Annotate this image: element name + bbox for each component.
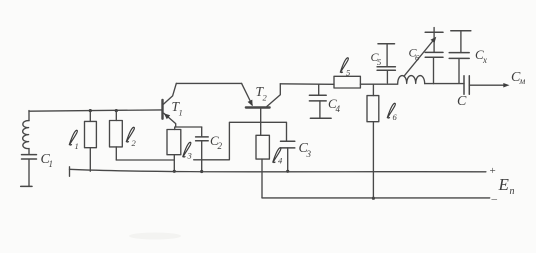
svg-text:4: 4 <box>278 156 283 166</box>
label R2 <box>126 127 136 148</box>
svg-text:E: E <box>498 175 510 194</box>
svg-text:2: 2 <box>263 93 268 103</box>
label C1 <box>41 152 54 169</box>
wire output with arrow <box>469 84 505 86</box>
resistor R3 <box>174 127 176 130</box>
wire T2 collector to R5 <box>280 83 334 86</box>
svg-text:n: n <box>510 186 515 197</box>
label C6 <box>409 46 421 63</box>
capacitor Cx <box>449 31 471 83</box>
wire T1 emitter junction <box>176 126 202 128</box>
label Cx <box>475 47 487 65</box>
wire -En rail <box>262 197 490 199</box>
label C2 <box>210 133 223 151</box>
node R3 bottom rail <box>173 170 176 173</box>
label Cm (output) <box>511 70 526 86</box>
svg-text:3: 3 <box>187 151 192 161</box>
label R6 <box>387 103 397 122</box>
wire T1 collector to T2 emitter (top link) <box>176 82 241 84</box>
resistor R2 <box>115 111 117 121</box>
svg-text:3: 3 <box>306 149 312 159</box>
label En supply <box>498 175 515 197</box>
wire top-left bus (tank to T1 base) <box>29 110 162 111</box>
wire L1 to C1 <box>28 149 30 155</box>
label R5 <box>340 58 350 78</box>
label R4 <box>273 148 283 166</box>
wire C2 bottom cross link to T2 base net <box>194 122 287 160</box>
svg-text:м: м <box>519 76 526 86</box>
capacitor C1 <box>22 155 37 159</box>
capacitor C3 <box>281 141 295 148</box>
svg-text:4: 4 <box>336 104 341 114</box>
resistor R1 <box>89 111 91 122</box>
label T1 <box>172 99 183 118</box>
transistor T1 <box>163 83 177 127</box>
label C3 <box>299 141 312 159</box>
wire +En rail <box>69 167 71 177</box>
transistor T2 <box>242 83 281 135</box>
svg-text:1: 1 <box>75 141 79 151</box>
svg-text:C: C <box>457 94 467 109</box>
label C4 <box>328 96 341 114</box>
node C3 bottom rail <box>286 170 289 173</box>
inductor L2 <box>398 76 425 84</box>
node R1 top <box>89 109 92 112</box>
capacitor C2 <box>201 127 203 137</box>
svg-text:5: 5 <box>377 57 381 67</box>
svg-text:+: + <box>490 165 496 177</box>
resistor R4 <box>256 135 269 159</box>
capacitor C4 <box>318 84 320 95</box>
node R2 top <box>115 109 118 112</box>
svg-text:1: 1 <box>179 108 183 118</box>
resistor R5 <box>334 76 360 88</box>
svg-text:5: 5 <box>346 68 350 78</box>
label R1 <box>69 130 78 151</box>
svg-text:1: 1 <box>49 159 54 169</box>
inductor L1 <box>23 121 29 149</box>
node C2 bottom rail <box>200 170 203 173</box>
capacitor C (series output) <box>464 76 469 95</box>
wire R2 bottom to R3 lead <box>116 159 174 161</box>
svg-text:–: – <box>491 193 498 205</box>
capacitor C6 (variable) <box>404 28 443 84</box>
label C5 <box>371 50 382 67</box>
svg-text:x: x <box>482 55 487 65</box>
node R6 bottom rail <box>372 197 375 200</box>
label T2 <box>256 84 268 103</box>
svg-text:2: 2 <box>218 141 223 151</box>
resistor R6 <box>372 84 374 95</box>
svg-text:6: 6 <box>393 112 398 122</box>
wire tank corner drop <box>28 111 30 121</box>
label R3 <box>183 142 192 160</box>
wire L2 to series capacitor C <box>425 83 464 85</box>
capacitor C5 <box>386 70 388 83</box>
svg-text:2: 2 <box>132 138 137 148</box>
